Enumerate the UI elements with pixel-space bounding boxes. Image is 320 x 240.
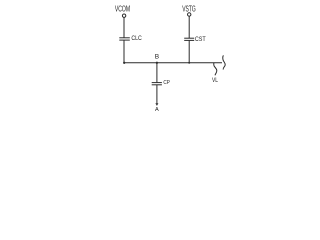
- svg-text:A: A: [155, 107, 159, 113]
- svg-text:VSTG: VSTG: [182, 4, 196, 14]
- svg-text:VL: VL: [212, 77, 218, 84]
- svg-text:CST: CST: [195, 36, 206, 43]
- svg-text:CLC: CLC: [131, 35, 142, 42]
- svg-text:B: B: [155, 54, 159, 61]
- svg-text:VCOM: VCOM: [115, 4, 130, 14]
- svg-text:CP: CP: [163, 80, 170, 86]
